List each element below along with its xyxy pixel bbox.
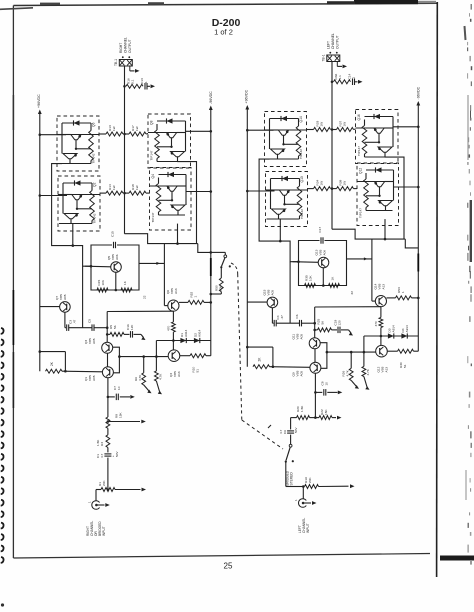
wire emitter tap to resistor (365, 141, 380, 143)
Q16 base wire (356, 127, 374, 129)
wire PNP bottom module to rail (394, 186, 419, 188)
diode inside Q12 module (376, 167, 382, 172)
svg-text:R3: R3 (100, 442, 104, 446)
capacitor C14 zobel (352, 79, 354, 86)
Q8 emitter neck (177, 157, 179, 162)
Q10 wire left (270, 179, 272, 210)
svg-text:A13: A13 (174, 288, 178, 294)
wire to Q11 node (302, 322, 315, 324)
wire emitter tap to resistor (284, 143, 299, 145)
svg-text:TIP142: TIP142 (300, 209, 304, 219)
bias loop wires around Q13 (299, 241, 347, 286)
wire (276, 322, 299, 324)
wire diode row left drop (363, 336, 365, 352)
emitter resistor inside Q2 module (91, 183, 93, 191)
capacitor C15 (113, 242, 115, 248)
svg-text:4.7: 4.7 (279, 429, 283, 434)
Q12 base wire (357, 181, 374, 183)
svg-text:50V: 50V (115, 451, 119, 457)
svg-text:C6: C6 (283, 430, 287, 434)
wire diode row (156, 340, 210, 342)
capacitor C17 (320, 237, 322, 243)
svg-text:A05: A05 (92, 338, 96, 344)
Q10 neck wire (284, 195, 286, 204)
wire TR emitter run (177, 162, 196, 244)
page frame bottom border (13, 554, 430, 559)
Q10 emitter neck (278, 214, 280, 219)
svg-text:1W: 1W (135, 185, 139, 190)
wire Q13 base (293, 261, 319, 264)
output bus wire from TB-1 (124, 67, 126, 234)
wire rail to Q15 (247, 301, 267, 303)
output tap arrow (129, 67, 131, 71)
output transistor Q16 (TIP147) dashed module box (356, 110, 399, 164)
Q2 collector top wire (63, 182, 92, 184)
output tap arrow (336, 62, 338, 66)
page frame top border (13, 3, 437, 5)
resistor R37 (332, 129, 337, 131)
transistor Q8 second funnel (171, 152, 185, 157)
wire diode row (364, 335, 418, 337)
page frame right border (436, 2, 439, 577)
node BL emitter joins (72, 244, 75, 247)
wire Q14 emitter (380, 307, 382, 318)
transistor Q4 first funnel (167, 186, 177, 191)
svg-text:5.1: 5.1 (338, 75, 342, 80)
transistor Q10 first funnel (279, 190, 289, 195)
svg-text:RIGHT: RIGHT (119, 43, 123, 53)
wire Q11 collector run (315, 306, 381, 308)
resistor R18 (125, 192, 130, 194)
svg-text:A914: A914 (184, 329, 188, 337)
svg-text:Q14: Q14 (299, 116, 303, 122)
svg-text:1.5K: 1.5K (96, 439, 100, 446)
transistor Q7 (60, 302, 71, 313)
Q12 emitter neck (385, 206, 387, 211)
svg-text:-96VDC: -96VDC (209, 91, 213, 104)
svg-text:A914: A914 (392, 325, 396, 333)
svg-text:15K: 15K (324, 409, 328, 415)
terminal block TB-1 (left channel speaker output) (327, 55, 340, 62)
Q16 neck wire (378, 133, 380, 142)
resistor R52 (179, 301, 188, 303)
ground arrow (349, 330, 352, 333)
wire Q3/Q1 (107, 353, 109, 367)
wire Q15 emitter (271, 308, 273, 324)
wire rail to lower NPN module base (39, 194, 42, 197)
emitter resistor inside Q16 module (364, 120, 366, 126)
wire 2K to Q9 base (270, 366, 310, 369)
svg-text:C17: C17 (318, 227, 322, 233)
diode inside Q10 module (282, 176, 288, 181)
resistor R53 (387, 297, 396, 299)
node rail/lower PNP module (210, 190, 213, 193)
switch S1b BRIDGED/STEREO (289, 444, 292, 447)
wire output bus lower run (125, 234, 198, 244)
output bus wire from TB-1 (331, 62, 333, 229)
svg-text:TIP142: TIP142 (92, 153, 96, 163)
dark scan mark bottom right (440, 556, 474, 561)
wire PNP top module to rail (393, 126, 418, 128)
wire emitter loop (320, 343, 327, 369)
output transistor Q2 (TIP142) dashed module box (58, 176, 100, 231)
node output/zobel (123, 85, 126, 88)
wire emitter tap to resistor (157, 146, 172, 148)
wire collector to output (289, 129, 307, 131)
node: rail to upper NPN module base (39, 133, 42, 136)
Q12 emitter bottom wire (366, 210, 393, 212)
terminal posts (329, 52, 331, 54)
wire PNP top module to rail (186, 130, 211, 132)
wire collector (384, 127, 393, 129)
transistor Q4 driver (168, 350, 180, 362)
svg-text:C5: C5 (88, 319, 92, 323)
resistor R16 zobel (126, 84, 143, 88)
svg-text:.47: .47 (73, 319, 77, 324)
wire zobel arrow (147, 85, 150, 87)
wire rail branch (39, 350, 42, 353)
Q16 collector top wire (365, 116, 394, 118)
svg-text:CHANNEL: CHANNEL (124, 37, 128, 53)
wire TL emitter run (52, 164, 91, 267)
node rail/upper PNP module (417, 126, 420, 129)
bias loop wires around Q5 (91, 245, 139, 290)
svg-text:INPUT: INPUT (102, 526, 106, 536)
svg-text:10K: 10K (309, 275, 313, 281)
svg-text:A13: A13 (177, 371, 181, 377)
transistor Q13 (318, 257, 329, 268)
svg-text:A06: A06 (323, 250, 327, 256)
output transistor Q12 (TIP147) dashed module box (357, 163, 399, 226)
svg-text:10: 10 (325, 382, 329, 386)
Q4 emitter neck (177, 210, 179, 215)
svg-text:4.7K: 4.7K (138, 374, 142, 381)
svg-text:A06: A06 (115, 254, 119, 260)
wire output bus lower run (332, 229, 405, 239)
resistor R14 (100, 192, 106, 194)
svg-text:15K: 15K (119, 412, 123, 418)
svg-text:120: 120 (130, 325, 134, 330)
transistor Q11 (309, 338, 320, 349)
emitter resistor inside Q14 module (298, 119, 300, 127)
svg-text:20K: 20K (102, 480, 106, 486)
transistor Q12 driver (376, 345, 388, 357)
dark scan segment on rail (210, 258, 212, 276)
transistor Q15 (267, 297, 278, 308)
svg-text:INPUT: INPUT (306, 523, 310, 533)
svg-text:Q12: Q12 (359, 168, 363, 174)
emitter resistor inside Q4 module (158, 178, 160, 184)
wire emitter tap to resistor (366, 195, 380, 197)
dark scan segment on rail (417, 254, 419, 272)
wire Q5 base (85, 265, 111, 268)
transistor Q3 (102, 342, 113, 353)
wire zobel arrow (355, 81, 358, 83)
-96VDC rail wire (417, 105, 419, 352)
input jack J1 (95, 490, 97, 501)
wire emitter tap to resistor (285, 203, 300, 205)
svg-text:1W: 1W (112, 185, 116, 190)
svg-text:5.1: 5.1 (131, 79, 135, 84)
+96VDC rail wire (246, 109, 248, 367)
Q14 emitter bottom wire (266, 158, 299, 160)
svg-text:120: 120 (338, 320, 342, 325)
output transistor Q14 (TIP142) dashed module box (265, 112, 307, 167)
diode inside Q2 module (75, 180, 81, 185)
transistor Q14 first funnel (278, 130, 288, 135)
node diode row (380, 335, 383, 338)
emitter resistor inside Q8 module (156, 124, 158, 130)
svg-text:TIP147: TIP147 (359, 208, 363, 218)
Q12 wire right (393, 170, 395, 201)
wire emitter loop (113, 347, 120, 373)
linkage tick (268, 425, 271, 428)
wire TL emitter run (259, 159, 298, 262)
wire to Q5 base (82, 266, 84, 328)
wire Q9 emitter down (314, 373, 316, 392)
wire to Q13 base (289, 262, 291, 324)
page frame left border (12, 6, 14, 559)
wire bus to switch row (405, 239, 418, 248)
svg-text:TIP147: TIP147 (357, 146, 361, 156)
emitter resistor inside Q12 module (365, 173, 367, 179)
transistor Q16 second funnel (378, 147, 392, 152)
wire Q11/Q9 (314, 349, 316, 363)
resistor R36 zobel (334, 80, 351, 84)
svg-text:20K: 20K (308, 477, 312, 483)
svg-text:51: 51 (403, 364, 407, 368)
Q4 wire right (185, 175, 187, 206)
Q2 neck wire (76, 200, 78, 209)
Q8 collector top wire (157, 120, 186, 122)
Q14 collector top wire (270, 118, 299, 120)
Q4 collector top wire (159, 174, 187, 176)
wire Q3 collector run (107, 310, 173, 312)
node BL emitter joins (279, 240, 282, 243)
switch gang dashed linkage (231, 263, 238, 274)
svg-text:Q2: Q2 (93, 182, 97, 187)
svg-text:51: 51 (196, 369, 200, 373)
spiral binding marks (1, 328, 4, 334)
-96VDC rail arrow (416, 101, 420, 106)
wire emitter tap to resistor (76, 148, 91, 150)
svg-text:A05: A05 (92, 375, 96, 381)
svg-text:1.5K: 1.5K (300, 405, 304, 412)
node diode row (172, 339, 175, 342)
Q14 emitter neck (277, 154, 279, 159)
Q16 wire right (392, 117, 394, 148)
wire Q5 emitter (115, 272, 117, 290)
wire collector to output (82, 194, 100, 196)
transistor Q14 driver (375, 296, 386, 307)
svg-text:56: 56 (113, 325, 117, 329)
terminal posts (122, 56, 124, 58)
Q16 emitter bottom wire (365, 156, 393, 158)
svg-text:470: 470 (167, 326, 171, 331)
Q6 base wire (57, 134, 71, 136)
svg-text:A13: A13 (385, 367, 389, 373)
svg-text:STEREO: STEREO (290, 472, 294, 486)
wire TR emitter run (385, 157, 404, 239)
left channel amplifier (245, 52, 421, 396)
Q10 emitter bottom wire (267, 218, 300, 220)
Q10 collector top wire (271, 178, 300, 180)
Q6 emitter neck (69, 159, 71, 164)
wire collector (177, 185, 186, 187)
wire Q6 emitter (172, 311, 174, 322)
svg-text:C15: C15 (111, 231, 115, 237)
wire 2K to Q1 base (62, 370, 102, 373)
wire collector to output (81, 134, 99, 136)
diode inside Q8 module (167, 118, 173, 123)
svg-text:-96VDC: -96VDC (417, 86, 421, 99)
diode inside Q16 module (374, 114, 380, 119)
wire diode row left drop (155, 341, 157, 357)
svg-text:Q8: Q8 (150, 120, 154, 125)
switch S1a wire (211, 251, 226, 253)
transistor Q6 first funnel (71, 135, 81, 140)
svg-text:Q4: Q4 (151, 174, 155, 179)
transistor Q12 first funnel (374, 182, 384, 187)
output transistor Q8 (TIP147) dashed module box (148, 114, 191, 168)
svg-text:1W: 1W (135, 126, 139, 131)
svg-text:22: 22 (350, 291, 354, 295)
svg-text:TB-1: TB-1 (114, 59, 118, 66)
svg-text:+96VDC: +96VDC (37, 94, 41, 108)
wire collector to output (290, 189, 308, 191)
terminal block TB-1 (right channel speaker output) (119, 60, 132, 67)
svg-text:1W: 1W (320, 122, 324, 127)
svg-text:470: 470 (374, 321, 378, 326)
wire Q7 emitter (64, 312, 66, 328)
dark scan band top (354, 0, 418, 4)
+96VDC rail arrow (245, 105, 249, 110)
svg-text:.47: .47 (280, 315, 284, 320)
feedback arrow (108, 421, 140, 423)
Q10 base wire (266, 189, 280, 191)
wire Q13 emitter (322, 268, 324, 286)
-96VDC rail arrow (209, 106, 213, 111)
node rail/upper PNP module (210, 130, 213, 133)
svg-text:1: 1 (194, 296, 198, 298)
transistor Q16 first funnel (374, 128, 384, 133)
svg-text:A05: A05 (300, 371, 304, 377)
wire Q1 emitter down (107, 378, 109, 397)
Q6 neck wire (75, 140, 77, 149)
dark scan mark top-left (0, 8, 33, 10)
node rail/lower PNP module (417, 186, 420, 189)
Q2 wire left (62, 183, 64, 214)
transistor Q2 first funnel (72, 195, 82, 200)
-96VDC rail wire (210, 109, 212, 356)
Q14 base wire (265, 129, 279, 131)
svg-text:TIP142: TIP142 (93, 213, 97, 223)
svg-text:4.7K: 4.7K (346, 369, 350, 376)
node: rail to upper NPN module base (246, 129, 249, 132)
wire base row (327, 351, 376, 353)
wire to Q3 node (94, 327, 107, 329)
diode inside Q6 module (74, 120, 80, 125)
wire bias loop to Q6 (139, 262, 164, 264)
svg-text:OUTPUT: OUTPUT (128, 39, 132, 53)
transistor Q5 (111, 262, 122, 273)
+96VDC rail wire (39, 113, 41, 371)
Q6 wire left (61, 123, 63, 154)
transistor Q12 second funnel (379, 201, 393, 206)
resistor R34 (308, 188, 314, 190)
wire Q6 collector loop (163, 244, 165, 306)
right edge bleed-through marks (470, 4, 472, 10)
svg-text:TIP147: TIP147 (150, 150, 154, 160)
wire (69, 327, 92, 329)
resistor R13 (99, 133, 106, 135)
transistor Q6 second funnel (63, 154, 77, 159)
transistor Q14 second funnel (271, 149, 285, 154)
diode inside Q4 module (168, 172, 174, 177)
resistor R38 (332, 188, 337, 190)
svg-text:1W: 1W (343, 181, 347, 186)
Q14 wire left (269, 119, 271, 150)
output transistor Q10 (TIP142) dashed module box (266, 172, 308, 227)
Q12 collector top wire (366, 169, 394, 171)
svg-text:10: 10 (117, 386, 121, 390)
svg-text:1W: 1W (343, 122, 347, 127)
input jack J2 (302, 487, 304, 499)
wire switch to input row (285, 462, 287, 487)
svg-text:1: 1 (401, 291, 405, 293)
transistor Q4 second funnel (171, 205, 185, 210)
Q2 emitter neck (70, 219, 72, 224)
wire Q14 collector loop (371, 239, 373, 301)
Q8 wire right (185, 121, 187, 152)
svg-text:A13: A13 (382, 284, 386, 290)
Q12 neck wire (379, 187, 381, 196)
emitter resistor inside Q10 module (299, 179, 301, 187)
svg-text:A914: A914 (198, 329, 202, 337)
resistor R33 (307, 129, 314, 131)
svg-text:56: 56 (321, 321, 325, 325)
svg-text:Q16: Q16 (357, 114, 361, 120)
transistor Q6 driver (168, 300, 179, 311)
Q4 neck wire (171, 191, 173, 200)
output transistor Q6 (TIP142) dashed module box (57, 116, 99, 171)
svg-text:1W: 1W (320, 181, 324, 186)
svg-text:22: 22 (143, 295, 147, 299)
svg-text:1 of 2: 1 of 2 (214, 28, 233, 37)
transistor Q1 (102, 367, 113, 378)
svg-text:50V: 50V (294, 427, 298, 433)
svg-text:CHANNEL: CHANNEL (331, 33, 335, 49)
wire bus to switch row (198, 244, 211, 253)
output transistor Q4 (TIP147) dashed module box (150, 168, 192, 231)
+96VDC rail arrow (38, 110, 42, 115)
Q8 emitter bottom wire (157, 161, 185, 163)
wire BR emitter down (177, 224, 179, 244)
wire BR emitter down (384, 219, 386, 239)
diode inside Q14 module (281, 116, 287, 121)
svg-text:C6: C6 (295, 314, 299, 318)
Q2 emitter bottom wire (59, 223, 92, 225)
svg-text:A05: A05 (300, 334, 304, 340)
wire PNP bottom module to rail (186, 191, 211, 193)
Q6 collector top wire (62, 122, 91, 124)
Q4 emitter bottom wire (159, 214, 186, 216)
Q8 neck wire (171, 138, 173, 147)
svg-text:A914: A914 (405, 325, 409, 333)
svg-text:TIP142: TIP142 (299, 149, 303, 159)
transistor Q10 second funnel (272, 209, 286, 214)
svg-text:TB-1: TB-1 (322, 54, 326, 61)
